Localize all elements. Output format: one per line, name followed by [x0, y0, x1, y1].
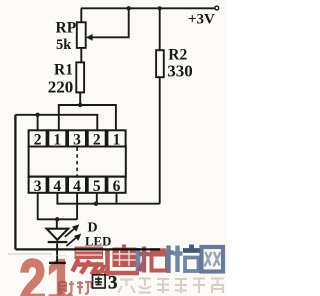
wire LED anode stub: [56, 219, 58, 229]
pin box 3b bottom: [29, 177, 47, 193]
wire top rail: [81, 7, 215, 9]
scan smudge under bottom rail: [8, 253, 52, 255]
watermark char tuo: [139, 246, 174, 274]
wire wiper arm vertical: [92, 8, 128, 37]
wire net A to LED: [38, 193, 77, 220]
LED arrow 1: [65, 228, 75, 236]
LED arrow 2: [66, 238, 76, 246]
pin box 4b bottom: [68, 177, 86, 193]
LED D anode triangle: [47, 229, 69, 240]
pin box 5 bottom: [88, 177, 106, 193]
wire node line B: [15, 115, 97, 131]
junction LED anode: [55, 217, 59, 221]
watermark faint text she-pin: [58, 281, 92, 295]
wire R1 bottom: [79, 92, 81, 105]
wire pin6 stub: [116, 193, 118, 203]
wire R2 bottom to pin 6: [159, 77, 161, 204]
pin box 4 bottom: [48, 177, 66, 193]
wire pot to R1: [80, 48, 82, 63]
watermark numeral 21: [19, 247, 73, 296]
caption figure 3 glyph: [93, 275, 106, 288]
watermark char yi: [73, 247, 104, 275]
wire pin3 stub through to LED line: [76, 193, 78, 220]
resistor R1 body: [76, 62, 84, 92]
watermark char nuo: [174, 245, 201, 273]
wire stub to pin box 2: [37, 115, 39, 131]
LED D cathode bar: [48, 241, 68, 243]
wire net B bottom: [57, 193, 159, 204]
watermark layer: [0, 0, 227, 296]
pin box 2b top: [88, 130, 106, 146]
wire R2 top: [159, 8, 161, 50]
node +3V terminal: [215, 6, 219, 10]
op IC body: [29, 130, 126, 193]
junction R1 to line A: [78, 103, 82, 107]
watermark char wang: [202, 247, 224, 272]
IC mid body: [29, 147, 126, 177]
pin box 3 top: [68, 130, 86, 146]
pin box 1b top: [107, 130, 125, 146]
junction R2 to top rail: [158, 6, 162, 10]
wire node line A: [59, 105, 116, 131]
resistor R2 body: [156, 50, 164, 77]
wiper arrowhead of RP: [86, 34, 93, 41]
pin box 6 bottom: [107, 177, 125, 193]
pin box 2 top: [29, 130, 47, 146]
junction wiper to top rail: [127, 6, 131, 10]
potentiometer RP body: [77, 22, 86, 48]
wire bottom rail: [15, 248, 160, 250]
IC internal divider: [76, 148, 78, 177]
wire pot top: [80, 8, 82, 22]
ground terminal bar: [49, 262, 66, 264]
wire left rail: [14, 115, 16, 250]
wire pin5 stub: [96, 193, 98, 204]
wire LED cathode: [56, 243, 58, 262]
junction pin 5 stub: [94, 202, 98, 206]
pin box 1 top: [48, 130, 66, 146]
junction line B to pin stub: [35, 113, 39, 117]
watermark char dian: [104, 245, 139, 277]
